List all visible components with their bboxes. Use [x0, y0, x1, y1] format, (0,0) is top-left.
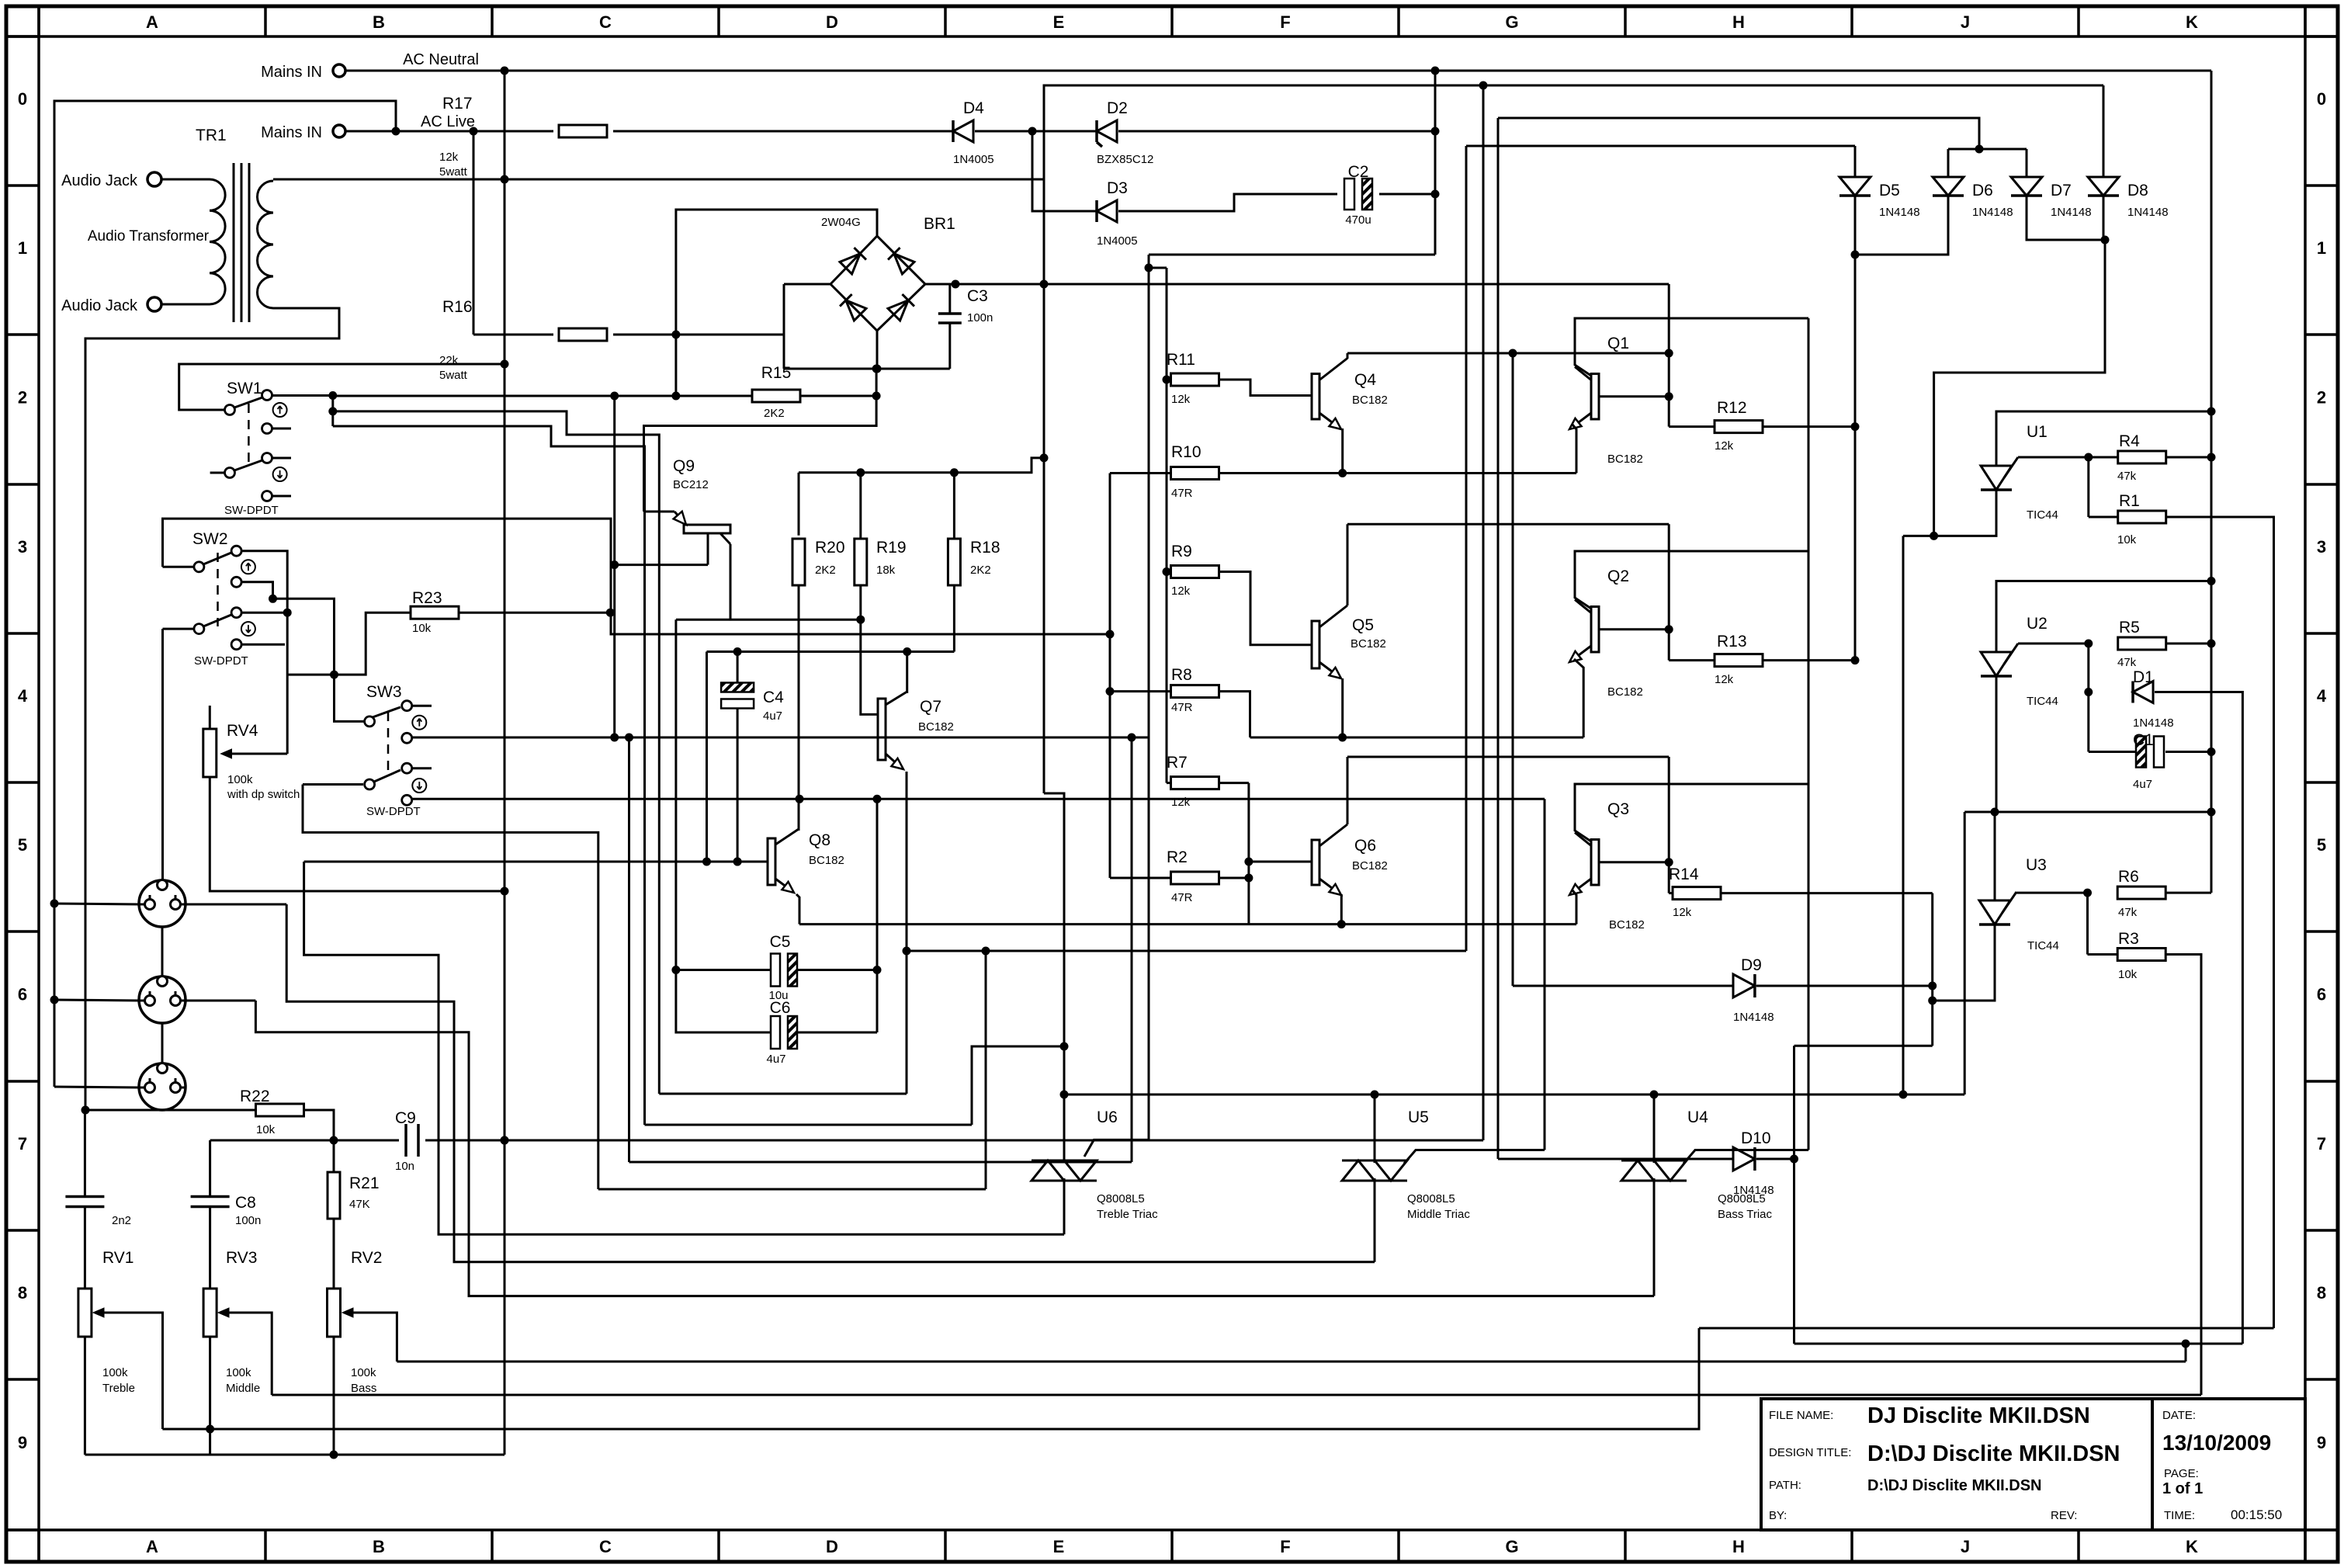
resistor R3	[2117, 949, 2165, 961]
svg-text:Audio Transformer: Audio Transformer	[88, 228, 210, 245]
title block	[1761, 1399, 2305, 1530]
wire	[353, 1313, 397, 1362]
svg-text:3: 3	[18, 537, 27, 557]
wire nest	[598, 1188, 986, 1191]
wire	[2089, 516, 2118, 519]
wire	[676, 210, 877, 396]
wire	[1110, 690, 1170, 692]
svg-text:12k: 12k	[1171, 796, 1191, 809]
wire	[2089, 751, 2135, 753]
wire	[784, 368, 950, 370]
svg-text:SW3: SW3	[366, 683, 402, 701]
svg-text:10k: 10k	[412, 622, 432, 635]
wire	[2103, 196, 2105, 240]
wire	[2026, 149, 2028, 177]
svg-text:K: K	[2186, 1537, 2198, 1556]
wire	[1250, 737, 1584, 739]
svg-text:R12: R12	[1717, 399, 1747, 417]
wire	[2086, 893, 2089, 954]
svg-text:U1: U1	[2027, 423, 2048, 441]
svg-text:2: 2	[18, 388, 27, 408]
wire	[1109, 474, 1111, 879]
svg-text:BC182: BC182	[809, 854, 844, 867]
wire	[345, 70, 2211, 72]
wire	[54, 101, 396, 1087]
svg-text:R20: R20	[815, 539, 845, 557]
connector XLR3	[139, 1063, 186, 1110]
svg-text:B: B	[373, 12, 385, 32]
svg-text:D8: D8	[2127, 182, 2148, 199]
svg-text:Treble: Treble	[102, 1382, 135, 1395]
svg-text:Q7: Q7	[920, 698, 941, 716]
wire U4 gate	[1683, 1150, 1808, 1164]
svg-text:2: 2	[2317, 388, 2326, 408]
svg-text:100k: 100k	[351, 1366, 376, 1379]
svg-text:3: 3	[2317, 537, 2326, 557]
wire Q8 emitter rail	[799, 923, 1576, 925]
wire	[707, 650, 955, 653]
svg-text:BC182: BC182	[1607, 453, 1643, 466]
wire	[1756, 1158, 1794, 1160]
wire U5 gate	[1404, 1150, 1545, 1164]
svg-text:10n: 10n	[395, 1160, 414, 1173]
wire	[1572, 425, 1576, 474]
svg-text:AC Live: AC Live	[421, 113, 475, 130]
svg-text:4u7: 4u7	[2133, 778, 2152, 791]
svg-text:12k: 12k	[1171, 393, 1191, 406]
resistor R1	[2118, 511, 2166, 523]
svg-text:9: 9	[18, 1433, 27, 1452]
svg-text:U2: U2	[2027, 615, 2048, 633]
wire SW1 line C	[333, 426, 645, 1125]
wire	[303, 783, 363, 786]
wire SW1 line B	[333, 411, 660, 1094]
wire	[1763, 425, 1855, 428]
wire	[331, 396, 334, 427]
wire	[1219, 692, 1250, 737]
svg-text:C2: C2	[1348, 163, 1369, 181]
wire	[1512, 353, 1514, 986]
svg-text:R1: R1	[2119, 492, 2140, 510]
wire	[1032, 131, 1097, 211]
svg-text:R5: R5	[2119, 619, 2140, 637]
wire	[615, 564, 708, 566]
wire	[2089, 456, 2118, 459]
svg-text:7: 7	[2317, 1134, 2326, 1153]
wire	[800, 395, 876, 397]
svg-text:R7: R7	[1167, 754, 1188, 772]
resistor R18	[948, 539, 960, 585]
wire	[1947, 149, 1950, 177]
wire	[1347, 352, 1669, 355]
resistor R13	[1715, 654, 1763, 667]
wire	[1996, 676, 1998, 812]
terminal Mains IN (live)	[333, 125, 345, 137]
svg-text:2n2: 2n2	[112, 1214, 131, 1227]
wire	[1996, 581, 2211, 653]
wire	[2211, 812, 2213, 893]
svg-text:K: K	[2186, 12, 2198, 32]
wire	[2018, 456, 2089, 459]
svg-text:1: 1	[2317, 238, 2326, 258]
svg-text:R2: R2	[1167, 848, 1188, 866]
svg-text:2W04G: 2W04G	[821, 216, 861, 229]
svg-text:12k: 12k	[1171, 585, 1191, 598]
wire	[85, 308, 339, 1110]
svg-text:D5: D5	[1879, 182, 1900, 199]
svg-text:Q1: Q1	[1607, 335, 1629, 352]
svg-text:1N4005: 1N4005	[1097, 234, 1138, 248]
wire	[1996, 411, 2211, 466]
resistor R6	[2117, 886, 2165, 899]
wire	[2166, 517, 2274, 1328]
svg-text:R23: R23	[412, 589, 442, 607]
svg-text:DATE:: DATE:	[2162, 1409, 2196, 1422]
svg-text:R4: R4	[2119, 432, 2140, 450]
wire	[613, 334, 784, 336]
resistor R4	[2118, 451, 2166, 463]
wire	[1118, 130, 1435, 133]
svg-text:100k: 100k	[227, 773, 253, 786]
resistor R14	[1673, 887, 1721, 900]
wire	[84, 1110, 86, 1196]
svg-text:1N4148: 1N4148	[2127, 206, 2169, 219]
wire	[473, 131, 475, 335]
diode D1	[2133, 682, 2153, 703]
wire SW2 pole to XLR1	[161, 629, 164, 880]
svg-text:1N4005: 1N4005	[953, 153, 994, 166]
wire	[676, 619, 861, 621]
svg-text:470u: 470u	[1345, 213, 1371, 227]
svg-text:SW2: SW2	[192, 530, 228, 548]
wire	[628, 737, 630, 1162]
terminal Audio Jack (bottom)	[147, 297, 161, 311]
svg-text:C6: C6	[770, 999, 791, 1017]
zener diode D2	[1097, 120, 1117, 142]
column tick lines	[37, 6, 40, 36]
svg-text:C3: C3	[967, 287, 988, 305]
svg-text:Audio Jack: Audio Jack	[61, 172, 138, 189]
svg-text:BR1: BR1	[924, 215, 955, 233]
svg-text:B: B	[373, 1537, 385, 1556]
svg-text:6: 6	[18, 985, 27, 1004]
wire	[613, 396, 615, 737]
wire	[273, 179, 505, 181]
wire lamp return to U6	[304, 862, 1064, 1234]
svg-text:1N4148: 1N4148	[2051, 206, 2092, 219]
svg-text:U5: U5	[1408, 1108, 1429, 1126]
capacitor C6	[771, 1016, 780, 1049]
wire	[1794, 1343, 2243, 1345]
wire	[1149, 267, 1167, 269]
svg-text:D9: D9	[1741, 956, 1762, 974]
svg-text:5watt: 5watt	[439, 165, 468, 179]
bridge diode	[846, 300, 866, 321]
wire	[1347, 523, 1669, 526]
svg-text:BY:: BY:	[1769, 1509, 1787, 1522]
wire	[953, 585, 955, 652]
wire	[1854, 146, 1857, 177]
resistor R15	[752, 390, 800, 402]
wire	[1931, 893, 1933, 1046]
wire	[2211, 71, 2213, 812]
wire	[876, 331, 879, 369]
svg-text:R13: R13	[1717, 633, 1747, 650]
terminal Audio Jack (top)	[147, 172, 161, 186]
svg-text:47k: 47k	[2118, 906, 2138, 919]
wire	[1793, 1046, 1795, 1344]
resistor R12	[1715, 421, 1763, 433]
wire	[1347, 524, 1349, 605]
wire	[737, 861, 768, 863]
wire	[1374, 1178, 1376, 1262]
svg-text:13/10/2009: 13/10/2009	[2162, 1431, 2271, 1455]
svg-text:Q8008L5: Q8008L5	[1718, 1192, 1766, 1205]
wire nest	[629, 1161, 1132, 1164]
svg-text:12k: 12k	[1673, 906, 1692, 919]
wire	[1994, 812, 1996, 900]
svg-text:C8: C8	[235, 1194, 256, 1212]
wire	[162, 1328, 1699, 1429]
wire	[1167, 571, 1170, 573]
wire	[161, 179, 210, 181]
wire	[674, 619, 677, 970]
wire	[1763, 659, 1855, 661]
wire	[1219, 380, 1312, 396]
svg-text:D:\DJ Disclite MKII.DSN: D:\DJ Disclite MKII.DSN	[1867, 1441, 2120, 1466]
wire	[985, 951, 987, 1189]
svg-text:Mains IN: Mains IN	[261, 64, 322, 81]
wire	[1903, 490, 1996, 536]
wire	[1497, 118, 1500, 1159]
wire	[861, 619, 878, 714]
svg-text:SW-DPDT: SW-DPDT	[366, 805, 421, 818]
svg-text:Q4: Q4	[1354, 371, 1376, 389]
svg-text:9: 9	[2317, 1433, 2326, 1452]
wiper	[342, 1308, 353, 1317]
wire	[303, 1110, 334, 1140]
svg-text:Q3: Q3	[1607, 800, 1629, 818]
svg-text:R6: R6	[2118, 868, 2139, 886]
svg-text:A: A	[146, 12, 158, 32]
connector XLR1	[139, 880, 186, 927]
wire	[1653, 1094, 1656, 1163]
wire	[798, 585, 800, 799]
svg-text:RV1: RV1	[102, 1249, 133, 1267]
bridge diode	[840, 254, 860, 274]
wire	[1341, 428, 1344, 474]
svg-text:2K2: 2K2	[815, 564, 836, 577]
wire	[1653, 1178, 1656, 1296]
svg-text:D2: D2	[1107, 99, 1128, 117]
wire	[1149, 254, 1435, 256]
svg-text:J: J	[1961, 1537, 1970, 1556]
svg-text:D1: D1	[2133, 668, 2154, 686]
resistor R19	[855, 539, 867, 585]
wire	[104, 1313, 163, 1429]
svg-text:Q8: Q8	[809, 831, 830, 849]
svg-text:BC182: BC182	[1609, 918, 1645, 931]
svg-text:18k: 18k	[876, 564, 896, 577]
wire	[1044, 85, 2103, 179]
wire	[1855, 196, 1948, 255]
resistor R10	[1171, 467, 1219, 480]
svg-text:R8: R8	[1171, 666, 1192, 684]
wire nest	[645, 1124, 973, 1126]
wire	[1699, 1327, 2274, 1330]
svg-text:D3: D3	[1107, 179, 1128, 197]
wiper	[218, 1308, 229, 1317]
resistor R7	[1171, 777, 1219, 789]
svg-text:D6: D6	[1972, 182, 1993, 199]
svg-text:2K2: 2K2	[970, 564, 991, 577]
wire	[1219, 877, 1249, 879]
wire MT2 rail	[659, 1093, 907, 1095]
wire	[737, 709, 739, 862]
svg-text:100n: 100n	[235, 1214, 261, 1227]
wire	[186, 904, 286, 906]
diode D4	[953, 120, 973, 142]
row tick lines	[6, 35, 39, 38]
wire	[1669, 659, 1714, 661]
svg-text:TR1: TR1	[196, 127, 227, 144]
svg-text:R11: R11	[1167, 351, 1195, 369]
svg-text:BC212: BC212	[673, 478, 709, 491]
wire	[2088, 953, 2119, 956]
wire	[1854, 194, 1857, 661]
wire	[906, 772, 908, 1094]
svg-text:R21: R21	[349, 1174, 380, 1192]
svg-text:R14: R14	[1669, 866, 1699, 883]
diode D5	[1839, 177, 1871, 196]
bridge diode	[888, 300, 908, 321]
wire	[1110, 877, 1170, 879]
wire	[505, 179, 1044, 181]
svg-text:D4: D4	[963, 99, 984, 117]
wire	[1167, 782, 1170, 784]
svg-text:47R: 47R	[1171, 891, 1193, 904]
svg-text:REV:: REV:	[2051, 1509, 2077, 1522]
wire	[1808, 318, 1810, 1150]
svg-text:U4: U4	[1687, 1108, 1708, 1126]
svg-text:C9: C9	[395, 1109, 416, 1127]
wire	[784, 283, 830, 286]
svg-text:0: 0	[2317, 89, 2326, 109]
svg-text:J: J	[1961, 12, 1970, 32]
diode D8	[2088, 177, 2119, 196]
svg-text:SW1: SW1	[227, 380, 262, 397]
wire	[1063, 1178, 1066, 1234]
wire	[241, 582, 273, 599]
svg-text:5: 5	[18, 835, 27, 855]
wire	[737, 652, 739, 683]
wire	[2165, 751, 2211, 753]
svg-text:SW-DPDT: SW-DPDT	[224, 504, 279, 517]
svg-text:R22: R22	[240, 1088, 270, 1105]
svg-text:G: G	[1505, 1537, 1518, 1556]
svg-text:U6: U6	[1097, 1108, 1118, 1126]
svg-text:8: 8	[18, 1283, 27, 1303]
wire	[1721, 892, 1933, 894]
svg-text:RV2: RV2	[351, 1249, 382, 1267]
wire	[1669, 425, 1714, 428]
wire	[2018, 643, 2089, 645]
svg-text:1N4148: 1N4148	[1972, 206, 2013, 219]
svg-text:100k: 100k	[102, 1366, 128, 1379]
wire	[1498, 118, 1979, 149]
wire	[273, 598, 366, 721]
diode D9	[1733, 974, 1755, 997]
wire	[287, 612, 411, 675]
svg-text:47k: 47k	[2117, 470, 2137, 483]
wire	[333, 1337, 335, 1455]
diode D7	[2011, 177, 2042, 196]
svg-text:DESIGN TITLE:: DESIGN TITLE:	[1769, 1446, 1851, 1459]
wire	[161, 928, 164, 977]
svg-text:47k: 47k	[2117, 656, 2137, 669]
wire	[1668, 524, 1670, 660]
diode D6	[1933, 177, 1964, 196]
svg-text:TIC44: TIC44	[2027, 508, 2058, 522]
wire	[1669, 892, 1672, 894]
wire	[796, 894, 799, 924]
svg-text:47R: 47R	[1171, 701, 1193, 714]
svg-text:FILE NAME:: FILE NAME:	[1769, 1409, 1833, 1422]
svg-text:C4: C4	[763, 689, 784, 706]
svg-text:E: E	[1053, 1537, 1065, 1556]
wire	[345, 130, 553, 133]
wire	[1340, 894, 1343, 924]
resistor R17	[559, 125, 607, 137]
svg-text:6: 6	[2317, 985, 2326, 1004]
capacitor C5	[771, 954, 780, 987]
wire	[209, 1207, 211, 1289]
wire	[1465, 146, 1468, 951]
wire	[229, 1313, 272, 1395]
wire	[161, 1024, 164, 1063]
wire	[1219, 782, 1249, 784]
capacitor C2	[1344, 179, 1354, 210]
svg-text:C5: C5	[770, 933, 791, 951]
svg-text:Middle Triac: Middle Triac	[1407, 1208, 1470, 1221]
wire	[84, 1207, 86, 1289]
svg-text:1N4148: 1N4148	[1733, 1011, 1774, 1024]
wire lamp return to U4	[255, 1001, 1654, 1296]
wire RV3 wiper run	[272, 1394, 2201, 1396]
capacitor C4	[721, 683, 754, 692]
wire	[876, 369, 878, 396]
resistor R23	[411, 606, 459, 619]
svg-text:100n: 100n	[967, 311, 993, 324]
wire	[1933, 924, 1995, 1001]
resistor R21	[328, 1172, 340, 1219]
diode D3	[1097, 200, 1117, 222]
wire	[1599, 395, 1669, 397]
svg-text:Mains IN: Mains IN	[261, 124, 322, 141]
svg-text:1 of 1: 1 of 1	[2162, 1480, 2203, 1497]
wire lamp return to U5	[286, 904, 1375, 1262]
svg-text:Bass: Bass	[351, 1382, 376, 1395]
wire	[54, 1087, 140, 1088]
svg-text:BC182: BC182	[1352, 394, 1388, 407]
wire	[303, 785, 598, 1190]
wire RV2 wiper run	[397, 1361, 2186, 1363]
svg-text:H: H	[1732, 1537, 1745, 1556]
wire	[54, 1000, 140, 1001]
svg-text:AC Neutral: AC Neutral	[403, 51, 479, 68]
svg-text:C: C	[599, 1537, 612, 1556]
svg-text:G: G	[1505, 12, 1518, 32]
